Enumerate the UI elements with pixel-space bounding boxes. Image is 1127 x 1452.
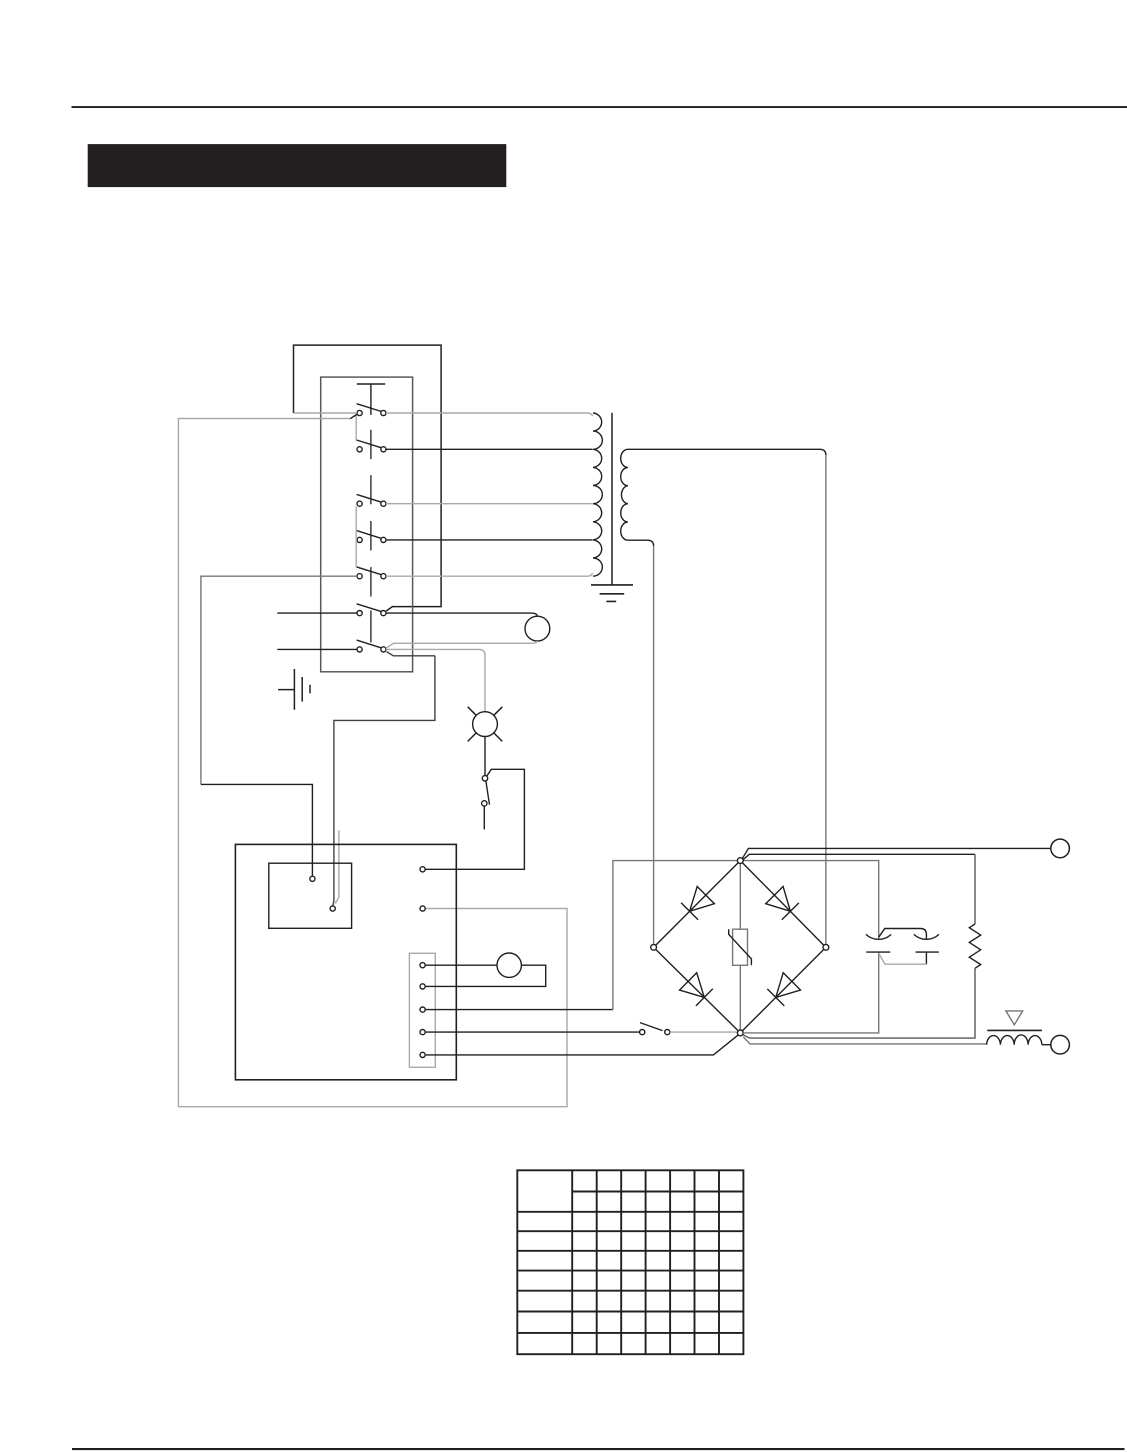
terminal D [420, 906, 425, 911]
wire: secondary top lead [628, 449, 826, 455]
wire: tap 2 (S1B right contact to primary tap) [386, 448, 593, 450]
output terminal J2 (positive) [1051, 1035, 1070, 1054]
capacitor C2 curved plate [914, 934, 939, 939]
capacitor C1 curved plate [866, 934, 891, 939]
terminal 3 [420, 1007, 425, 1012]
terminal 4 [420, 1030, 425, 1035]
wire: bridge bottom node to capacitor rail [743, 952, 879, 1033]
switch pole S1C [357, 494, 386, 506]
wire: tap 5 (S1E right contact to primary bottom) [386, 573, 593, 576]
wire: bridge top node to negative output terminal [743, 848, 1051, 858]
switch gang linkage (dashed) [370, 430, 372, 643]
wire: bridge arm top-right [742, 863, 823, 946]
wire: secondary bottom lead [628, 540, 654, 546]
wire: riser terminal 3 to bridge top node [613, 861, 879, 1010]
wire: terminal 4 to output switch S3 [425, 1031, 639, 1033]
terminal B [330, 906, 335, 911]
transformer T1 primary winding [593, 413, 602, 576]
switch pole S1A [357, 404, 386, 416]
wire: tap 3 (S1C right contact to primary tap) [386, 503, 593, 505]
varistor RV1 body [733, 929, 748, 965]
resistor R1 [969, 924, 980, 968]
lamp DS2 (incandescent, circle with rays) [468, 707, 503, 742]
data table grid [517, 1170, 743, 1354]
wire: AC line lead to S1G [277, 648, 357, 650]
wire: pilot lamp DS1 bottom return to S1G right contact [386, 641, 538, 648]
wire: terminal 1 to meter M1 [425, 964, 497, 966]
transformer T1 core [611, 413, 613, 585]
switch pole S1G [357, 640, 386, 652]
polarity marker (triangle) [1006, 1011, 1023, 1025]
wire: S1G right contact to lamp DS2 branch [386, 649, 485, 711]
output terminal J1 (negative) [1051, 839, 1070, 858]
wire: pole chain S1A-S1B [355, 416, 357, 442]
wire: tap 1 (S1A right contact to transformer primary top) [386, 413, 593, 416]
switch pole S1E [357, 567, 386, 579]
wire: riser to bridge right node [825, 455, 827, 944]
pilot lamp DS1 [525, 616, 550, 641]
switch shaft T handle [357, 384, 385, 415]
switch S2 (lamp switch) [482, 776, 490, 807]
relay box (inner enclosure with terminals A,B) [269, 863, 352, 928]
bar above choke [987, 1029, 1042, 1031]
wire: bridge arm left-bottom [656, 949, 739, 1030]
bottom rule [72, 1448, 1125, 1450]
wire: interlock loop from switch S1A left contact around top to S1F right contact [294, 345, 442, 611]
node: bridge bottom (positive) [737, 1030, 743, 1036]
terminal A [310, 876, 315, 881]
switch pole S1B [357, 440, 386, 452]
wire: AC line lead to S1F [277, 612, 357, 614]
capacitor C2 stub [925, 952, 927, 964]
diode D4 [767, 973, 800, 1006]
wire: riser to bridge left node [653, 546, 655, 944]
terminal 2 [420, 984, 425, 989]
switch S3 (output switch) [640, 1023, 670, 1035]
wire: terminal A feed (lower leg) [201, 784, 313, 876]
wire: S1A left contact to terminal D (long return) [178, 419, 567, 1107]
wire: pole chain S1C-S1D-S1E [355, 506, 357, 567]
switch box SW1 (rotary tap selector enclosure) [321, 377, 413, 672]
wire: meter M1 return to terminal 2 [425, 965, 546, 986]
diode D2 [766, 887, 799, 920]
wire: S2 lower contact stub [483, 806, 485, 829]
wire: bridge top node to bleeder resistor R1 top [743, 854, 975, 860]
wire: bridge arm right-bottom [742, 949, 823, 1030]
wire: tap 4 (S1D right contact to primary tap) [386, 539, 593, 541]
terminal 5 [420, 1052, 425, 1057]
wire: S2 upper contact to terminal C [425, 769, 524, 869]
transformer T1 secondary winding [621, 449, 628, 540]
earth ground (transformer core) [591, 585, 633, 602]
terminal strip (terminals 1-5) [409, 953, 435, 1067]
meter M1 [497, 953, 521, 977]
wire: resistor R1 bottom to bridge bottom node [743, 968, 975, 1038]
switch pole S1D [357, 531, 386, 543]
varistor RV1 leads [739, 864, 741, 1031]
node: bridge right (AC) [823, 944, 829, 950]
node: bridge left (AC) [651, 944, 657, 950]
wire: S1F right contact to pilot lamp DS1 top [386, 613, 537, 616]
wire: S1G right contact to terminal B [333, 652, 435, 906]
wire: terminal 5 to bridge bottom node [425, 1035, 738, 1055]
wire: bridge bottom node to choke L1 [743, 1037, 986, 1044]
switch pole S1F [357, 604, 386, 616]
wire: S1A left contact to interlock loop [294, 412, 357, 414]
capacitor C1 straight plate [866, 951, 890, 953]
capacitor C2 top tie [879, 929, 927, 940]
wire: terminal 3 to bridge positive rail [425, 1009, 613, 1011]
top rule [72, 106, 1127, 108]
varistor RV1 stroke [729, 929, 752, 965]
wire: S1E left contact to terminal A [201, 576, 357, 784]
node: bridge top (negative) [737, 858, 743, 864]
wire: capacitor bottom tie [879, 953, 927, 964]
control box (lower enclosure) [235, 844, 456, 1079]
diode D3 [680, 973, 713, 1006]
wire: hook at S1A left contact [350, 414, 357, 418]
title bar (solid black) [88, 144, 507, 187]
wire: lamp DS2 to switch S2 [484, 737, 486, 776]
chassis ground (line cord ground) [278, 669, 310, 710]
terminal C [420, 867, 425, 872]
diode D1 [681, 887, 714, 920]
resistor R1 lead top [974, 854, 976, 924]
wire: switch S3 to bridge bottom node [670, 1031, 738, 1033]
wire: choke L1 to positive output terminal [1042, 1044, 1051, 1046]
wire: gray stub at terminal B [335, 830, 339, 903]
terminal 1 [420, 963, 425, 968]
capacitor C2 straight plate [916, 951, 939, 953]
wire: bridge arm top-left [656, 863, 739, 946]
choke L1 [987, 1035, 1042, 1045]
